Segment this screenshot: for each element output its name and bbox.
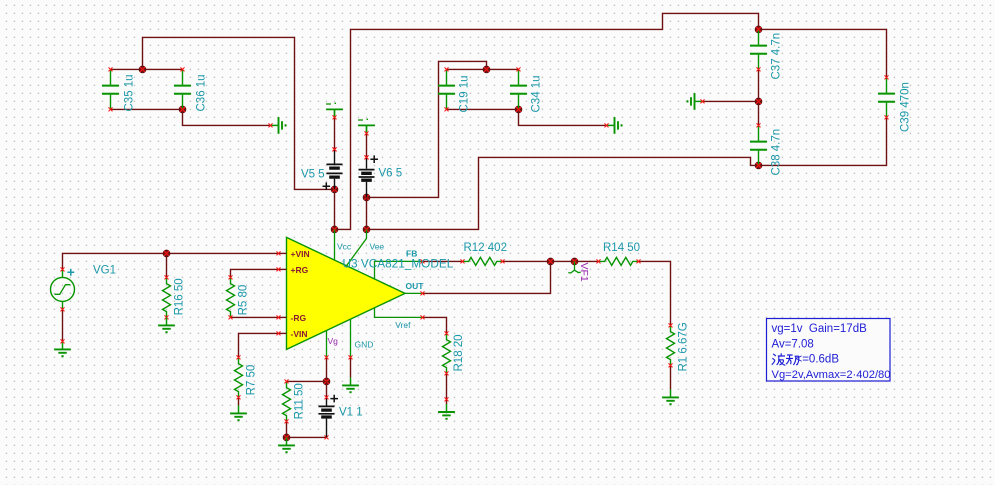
op-amp pin Vref	[375, 308, 425, 330]
wire VG1 to ground	[62, 309, 64, 341]
wire Vcc node to top rail	[335, 13, 759, 229]
label C34 1u	[531, 75, 543, 112]
node C37/C38 mid junction	[755, 98, 762, 105]
svg-text:Vcc: Vcc	[337, 242, 352, 252]
resistor R5	[227, 275, 235, 319]
svg-text:C38 4.7n: C38 4.7n	[771, 129, 783, 176]
ground below R16	[158, 317, 175, 332]
capacitor C36	[174, 67, 191, 111]
wire V5 top terminal	[333, 117, 337, 151]
capacitor C19	[438, 67, 455, 111]
label V5 5	[301, 169, 325, 181]
svg-text:+VIN: +VIN	[291, 249, 310, 259]
label R5 80	[238, 285, 250, 316]
svg-text:<=0.6dB: <=0.6dB	[796, 354, 840, 366]
wire Vee node to C38 bottom net	[367, 157, 759, 229]
wire OUT to feedback node	[423, 261, 551, 293]
wire mid node to C38	[758, 101, 760, 125]
resistor R12	[461, 257, 505, 265]
svg-text:GND: GND	[355, 339, 374, 349]
svg-text:vg=1v Gain=17dB: vg=1v Gain=17dB	[772, 323, 868, 335]
label R7 50	[246, 365, 258, 396]
svg-text:Vee: Vee	[370, 242, 385, 252]
wire FB to R12	[423, 260, 463, 262]
label C37 4.7n	[771, 33, 783, 80]
wire R12 to R14 through feedback node	[503, 260, 599, 262]
ground below GND pin	[342, 377, 359, 392]
wire C19/C34 bottom net	[447, 108, 519, 110]
label VG1	[93, 265, 116, 277]
wire C39 bottom to C38 bottom	[759, 117, 887, 165]
label R18 20	[453, 334, 465, 371]
op-amp pin GND	[349, 319, 374, 359]
svg-text:C36 1u: C36 1u	[196, 74, 208, 111]
label R14 50	[603, 242, 640, 254]
capacitor C37	[750, 27, 767, 71]
wire R1 to ground	[670, 365, 672, 389]
node feedback junction	[547, 258, 554, 265]
node +VIN/R16 junction	[163, 250, 170, 257]
svg-text:Vg: Vg	[328, 336, 339, 346]
wire R16 stub to +VIN net	[166, 253, 168, 277]
wire C35 net to V5 positive terminal	[143, 37, 335, 189]
svg-text:R1 6.67G: R1 6.67G	[678, 322, 690, 371]
wire Vref to R18	[423, 317, 447, 333]
wire C36 bottom to side ground	[183, 109, 271, 125]
resistor R14	[597, 257, 641, 265]
label C36 1u	[196, 74, 208, 111]
wire C19/C34 top net	[447, 68, 519, 70]
node bottom ground junction	[283, 434, 290, 441]
node C34 bottom junction	[515, 106, 522, 113]
side ground right of C34	[605, 117, 622, 134]
wire +VIN net from VG1 to op-amp	[63, 253, 279, 269]
capacitor C38	[750, 123, 767, 167]
svg-text:R14 50: R14 50	[603, 242, 640, 254]
node VF1 junction	[571, 258, 578, 265]
label C39 470n	[900, 82, 912, 132]
wire C34 bottom to side ground	[519, 109, 607, 125]
node Vcc junction	[331, 226, 338, 233]
label VF1	[578, 263, 590, 282]
svg-text:OUT: OUT	[406, 281, 425, 291]
op-amp pin FB	[375, 249, 425, 280]
wire R7 to ground	[238, 397, 240, 405]
battery V6	[358, 119, 378, 197]
label U3 VCA821_MODEL	[343, 257, 454, 271]
op-amp pin -VIN	[277, 329, 308, 339]
wire Vg node to R11	[287, 380, 327, 382]
svg-text:R18 20: R18 20	[453, 334, 465, 371]
label V1 1	[339, 407, 363, 419]
svg-text:Vref: Vref	[395, 320, 411, 330]
source VG1	[51, 267, 75, 311]
svg-text:-VIN: -VIN	[291, 329, 308, 339]
svg-text:C34 1u: C34 1u	[531, 75, 543, 112]
wire C37 to mid node	[758, 69, 760, 101]
side ground right of C36	[269, 117, 286, 134]
capacitor C35	[102, 67, 119, 111]
ground below R1	[662, 389, 679, 404]
resistor R1	[667, 323, 675, 367]
label R12 402	[464, 242, 507, 254]
label R1 6.67G	[678, 322, 690, 371]
resistor R11	[283, 379, 291, 423]
label V6 5	[379, 168, 403, 180]
svg-text:C35 1u: C35 1u	[124, 74, 136, 111]
op-amp pin Vee	[347, 229, 385, 265]
ground below R7	[230, 405, 247, 420]
wire mid node to side ground	[703, 100, 759, 102]
wire top rail to C39	[759, 29, 887, 77]
svg-text:Av=7.08: Av=7.08	[772, 338, 814, 350]
ground below R18	[438, 397, 455, 418]
op-amp pin Vcc	[335, 229, 352, 260]
svg-text:V5 5: V5 5	[301, 169, 325, 181]
op-amp pin -RG	[277, 313, 307, 323]
annotation text box	[767, 319, 891, 382]
svg-text:Vg=2v,Avmax=2·402/80: Vg=2v,Avmax=2·402/80	[772, 369, 891, 381]
node Vee junction	[363, 226, 370, 233]
svg-text:-RG: -RG	[291, 313, 307, 323]
svg-text:R11 50: R11 50	[294, 383, 306, 419]
wire C35/C36 bottom net	[111, 108, 183, 110]
node V5 bottom junction	[331, 186, 338, 193]
svg-text:C39 470n: C39 470n	[900, 82, 912, 132]
node C36 bottom junction	[179, 106, 186, 113]
node Vg junction	[323, 378, 330, 385]
resistor R16	[163, 275, 171, 319]
resistor R18	[443, 331, 451, 375]
wire R14 to R1	[639, 261, 671, 325]
op-amp pin +RG	[277, 265, 309, 275]
op-amp U3 VCA821_MODEL	[287, 237, 406, 349]
svg-text:C37 4.7n: C37 4.7n	[771, 33, 783, 80]
svg-text:+RG: +RG	[291, 265, 309, 275]
wire Vg node to V1	[326, 381, 328, 397]
node V6 bottom junction	[363, 194, 370, 201]
svg-text:C19 1u: C19 1u	[459, 75, 471, 112]
svg-text:VF1: VF1	[578, 263, 590, 282]
label R16 50	[174, 278, 186, 315]
node C19/C34 top junction	[483, 66, 490, 73]
svg-text:R5 80: R5 80	[238, 285, 250, 316]
svg-text:V1 1: V1 1	[339, 407, 363, 419]
battery V5	[323, 103, 344, 190]
wire V6 bottom to C19 top net	[367, 61, 487, 197]
svg-text:R16 50: R16 50	[174, 278, 186, 315]
side ground left of C37/C38 node	[688, 93, 705, 110]
probe VF1	[568, 261, 580, 273]
op-amp pin OUT	[405, 281, 425, 296]
op-amp pin Vg	[325, 331, 339, 360]
ground below VG1	[54, 339, 71, 356]
op-amp pin +VIN	[277, 249, 310, 259]
label C38 4.7n	[771, 129, 783, 176]
svg-text:U3 VCA821_MODEL: U3 VCA821_MODEL	[343, 257, 454, 271]
wire Vg pin to node	[326, 357, 328, 381]
wire V6 bottom to Vee node	[366, 197, 368, 229]
wire -RG net from R5 to op-amp	[231, 316, 279, 318]
wire V5 bottom to Vcc node	[334, 189, 336, 229]
wire +RG net from R5 to op-amp	[231, 269, 279, 277]
ground at R11/V1 bottom	[278, 437, 295, 452]
svg-text:R7 50: R7 50	[246, 365, 258, 396]
label R11 50	[294, 383, 306, 419]
node C37 top junction	[755, 26, 762, 33]
resistor R7	[235, 355, 243, 399]
svg-text:R12 402: R12 402	[464, 242, 507, 254]
capacitor C34	[510, 67, 527, 111]
label C19 1u	[459, 75, 471, 112]
capacitor C39	[878, 75, 895, 119]
svg-text:V6 5: V6 5	[379, 168, 403, 180]
node C38 bottom junction	[755, 162, 762, 169]
wire R18 to ground	[446, 373, 448, 404]
wire R11/V1 bottom net	[287, 421, 329, 439]
node C35/C36 top junction	[139, 66, 146, 73]
battery V1	[319, 395, 339, 438]
wire C35/C36 top net	[111, 68, 183, 70]
wire -VIN net from R7 to op-amp	[239, 333, 279, 357]
wire GND pin to ground	[350, 357, 352, 377]
svg-text:VG1: VG1	[93, 265, 116, 277]
label C35 1u	[124, 74, 136, 111]
wire V6 top terminal	[365, 133, 369, 159]
